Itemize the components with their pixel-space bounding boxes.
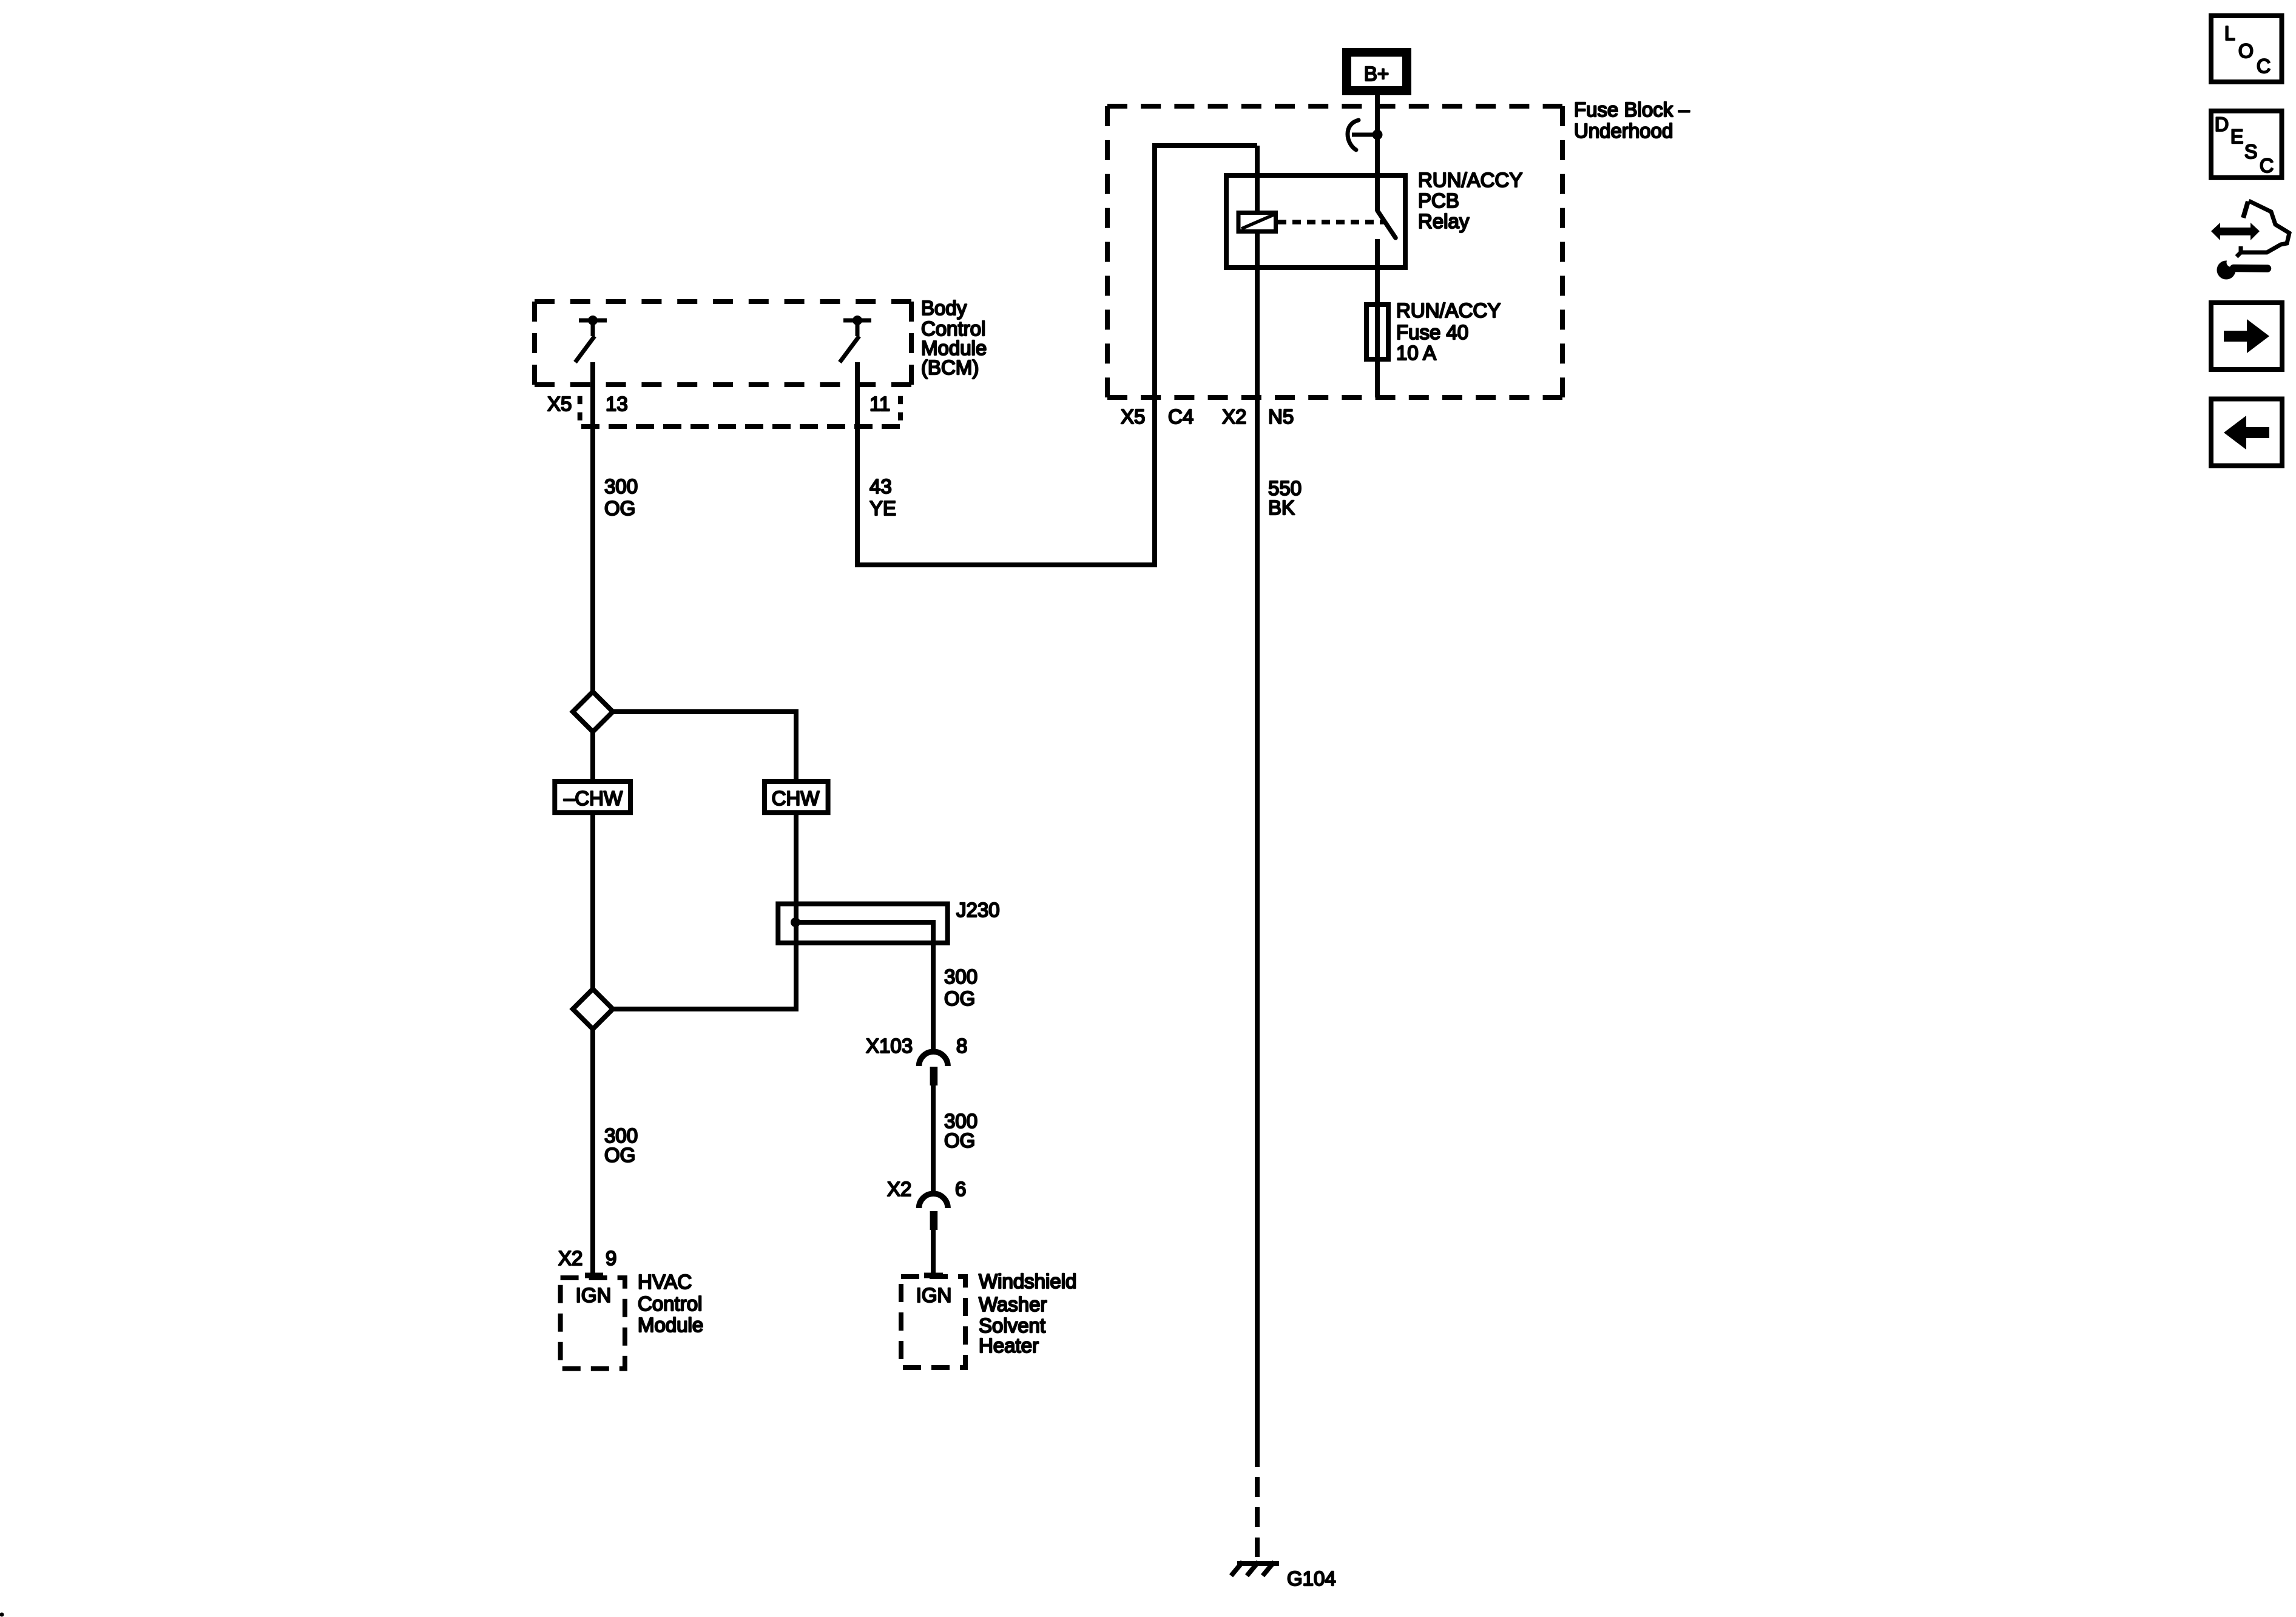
svg-text:PCB: PCB — [1418, 189, 1459, 212]
svg-text:X2: X2 — [1222, 405, 1246, 428]
svg-text:OG: OG — [944, 1129, 975, 1152]
svg-text:C: C — [2257, 55, 2271, 77]
wire: from X2 connector down to Windshield Washer Solvent Heater — [931, 1230, 936, 1274]
wire: dashed ground lead above G104 — [1255, 1477, 1260, 1557]
svg-text:C: C — [2260, 155, 2274, 177]
svg-text:X2: X2 — [887, 1178, 911, 1200]
svg-text:BK: BK — [1268, 496, 1295, 519]
wire: 43 YE from BCM pin 11 right, up through X5/C4 into fuse block, across top, node into coil — [857, 146, 1257, 565]
svg-text:X5: X5 — [547, 393, 572, 415]
junction dot at B+ bus — [1373, 130, 1383, 140]
wire: relay switch lower contact through fuse to fuse block bottom — [1375, 239, 1380, 397]
BCM pin 11 output driver — [840, 320, 871, 362]
svg-text:OG: OG — [604, 1144, 635, 1166]
service info icon: double arrow — [2211, 223, 2260, 240]
wire: B+ feed down to relay switch pivot — [1375, 94, 1380, 211]
-CHW option box — [555, 781, 630, 812]
svg-text:OG: OG — [604, 497, 635, 519]
svg-text:RUN/ACCY: RUN/ACCY — [1418, 169, 1522, 191]
svg-text:6: 6 — [955, 1178, 966, 1200]
svg-text:X2: X2 — [558, 1247, 582, 1269]
page corner mark — [0, 1613, 4, 1617]
svg-text:D: D — [2215, 113, 2229, 135]
svg-text:IGN: IGN — [916, 1284, 952, 1306]
svg-text:(BCM): (BCM) — [921, 356, 979, 379]
svg-text:L: L — [2224, 22, 2235, 44]
svg-text:OG: OG — [944, 987, 975, 1010]
svg-text:CHW: CHW — [772, 787, 820, 809]
svg-text:X103: X103 — [866, 1035, 913, 1057]
DESC navigation box — [2211, 111, 2282, 178]
option diamond upper — [573, 692, 613, 732]
bus hook symbol at B+ junction — [1348, 120, 1359, 150]
connector X2 pin 6 symbol — [919, 1193, 948, 1230]
J230 splice dot — [791, 917, 800, 927]
wire: branch from top diamond to CHW leg — [612, 712, 796, 1009]
relay RUN/ACCY PCB Relay box — [1226, 175, 1405, 268]
J230 splice box — [778, 904, 947, 944]
BCM pin 13 output driver — [575, 320, 607, 362]
LOC navigation box — [2211, 16, 2282, 82]
HVAC Control Module IGN dashed box — [561, 1278, 625, 1369]
BCM connector strip separator left — [578, 396, 582, 420]
svg-text:300: 300 — [944, 965, 977, 988]
svg-text:HVAC: HVAC — [638, 1271, 692, 1293]
svg-text:Module: Module — [638, 1314, 703, 1336]
wire: relay coil wire down through X2/N5, 550 BK down to ground — [1255, 146, 1260, 1467]
svg-text:X5: X5 — [1121, 405, 1145, 428]
svg-text:Control: Control — [638, 1292, 702, 1315]
BCM connector strip lower dashed line — [581, 424, 900, 429]
svg-text:YE: YE — [869, 497, 896, 519]
svg-text:N5: N5 — [1268, 405, 1294, 428]
svg-text:Fuse 40: Fuse 40 — [1396, 321, 1468, 343]
washer heater terminal T-bar — [924, 1273, 943, 1278]
fuse RUN/ACCY Fuse 40 10A — [1366, 305, 1388, 359]
svg-text:E: E — [2230, 126, 2243, 147]
relay coil — [1238, 213, 1276, 232]
Body Control Module (BCM) dashed box — [535, 302, 911, 385]
relay internal dashed link — [1278, 220, 1384, 224]
option diamond lower — [573, 989, 613, 1029]
svg-text:–CHW: –CHW — [564, 787, 623, 809]
back arrow box — [2211, 399, 2282, 466]
svg-text:Fuse Block –: Fuse Block – — [1574, 98, 1690, 121]
svg-text:10 A: 10 A — [1396, 342, 1436, 364]
wire: 300 OG between X103 and X2 connectors — [931, 1085, 936, 1193]
svg-text:Relay: Relay — [1418, 210, 1470, 232]
svg-text:13: 13 — [606, 393, 628, 415]
svg-text:300: 300 — [604, 475, 638, 498]
svg-text:S: S — [2244, 141, 2257, 163]
svg-text:Washer: Washer — [979, 1293, 1047, 1315]
svg-text:O: O — [2238, 40, 2254, 62]
Fuse Block - Underhood dashed box — [1107, 106, 1562, 397]
svg-text:Solvent: Solvent — [979, 1314, 1045, 1337]
svg-text:G104: G104 — [1287, 1567, 1336, 1590]
svg-text:11: 11 — [869, 393, 890, 415]
svg-text:Windshield: Windshield — [979, 1270, 1076, 1292]
svg-text:Heater: Heater — [979, 1334, 1039, 1357]
relay switch arm — [1377, 211, 1396, 238]
svg-text:IGN: IGN — [576, 1284, 612, 1306]
wire: 300 OG from BCM pin 13 down to HVAC Control Module — [590, 362, 595, 1274]
svg-text:Body: Body — [921, 297, 967, 319]
BCM connector strip separator right — [898, 396, 903, 420]
HVAC module terminal T-bar — [585, 1273, 603, 1278]
svg-text:9: 9 — [606, 1247, 616, 1269]
svg-text:B+: B+ — [1364, 62, 1389, 85]
svg-text:C4: C4 — [1168, 405, 1194, 428]
svg-text:8: 8 — [956, 1035, 967, 1057]
service info icon: engine silhouette — [2237, 201, 2289, 257]
forward arrow box — [2211, 303, 2282, 370]
CHW option box — [765, 781, 828, 812]
svg-text:J230: J230 — [956, 899, 1000, 921]
svg-text:Underhood: Underhood — [1574, 120, 1673, 142]
connector X103 pin 8 symbol — [919, 1052, 948, 1085]
Windshield Washer Solvent Heater IGN dashed box — [901, 1277, 965, 1368]
service info icon: wrench — [2217, 258, 2268, 280]
svg-text:43: 43 — [869, 475, 892, 498]
B+ battery feed box — [1342, 48, 1411, 95]
wire: J230 splice output down to X103 connector — [795, 922, 933, 1051]
svg-text:RUN/ACCY: RUN/ACCY — [1396, 299, 1501, 322]
ground symbol G104 — [1231, 1562, 1279, 1576]
